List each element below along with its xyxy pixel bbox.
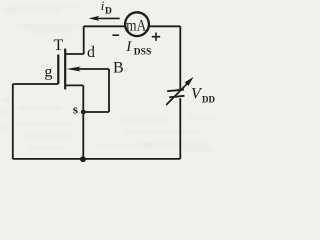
svg-text:T: T [54,37,64,54]
svg-text:mA: mA [126,17,146,34]
svg-text:DSS: DSS [134,48,151,58]
svg-text:B: B [113,60,124,77]
svg-text:D: D [105,7,112,17]
svg-text:DD: DD [202,94,215,104]
svg-text:I: I [125,39,132,55]
svg-text:s: s [73,102,78,117]
svg-text:d: d [87,44,95,61]
svg-text:g: g [44,64,52,81]
